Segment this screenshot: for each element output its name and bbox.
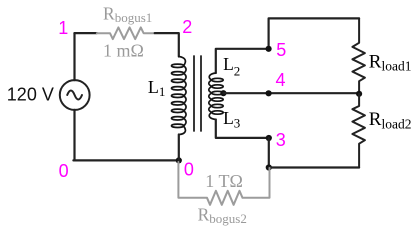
junction node 5	[266, 46, 272, 52]
wire R_bogus1 to node 2 corner	[155, 33, 179, 56]
svg-text:L1: L1	[148, 77, 166, 99]
svg-text:5: 5	[276, 40, 286, 60]
wire node 3 down to bottom right rail	[268, 138, 270, 168]
wire L3 bottom to node 3	[216, 120, 269, 138]
svg-text:1 TΩ: 1 TΩ	[205, 171, 243, 191]
resistor R_bogus2	[178, 162, 269, 205]
voltage source V1	[60, 80, 90, 110]
wire L1 bottom to node 0 junction	[178, 135, 180, 161]
svg-text:1: 1	[58, 18, 68, 38]
svg-text:Rbogus1: Rbogus1	[103, 4, 152, 26]
svg-text:3: 3	[276, 130, 286, 150]
resistor R_load1	[352, 18, 365, 93]
svg-text:4: 4	[276, 70, 286, 90]
svg-text:Rload2: Rload2	[369, 109, 412, 132]
inductor L3 secondary lower	[209, 93, 223, 120]
svg-text:0: 0	[184, 160, 194, 180]
svg-text:Rload1: Rload1	[369, 51, 412, 73]
junction node 4	[266, 90, 272, 96]
wire top-left from node 1 to R_bogus1	[75, 32, 97, 34]
transformer core	[194, 56, 201, 131]
svg-text:L2: L2	[223, 54, 240, 79]
junction node 0	[176, 157, 182, 163]
wire source bottom to bottom rail	[73, 110, 75, 160]
wire bottom right rail	[269, 166, 359, 168]
svg-text:L3: L3	[223, 108, 240, 131]
inductor L2 secondary upper	[209, 73, 223, 95]
junction node 3	[266, 135, 272, 141]
svg-text:120 V: 120 V	[7, 84, 54, 104]
center tap junction	[220, 90, 226, 96]
wire center tap to node 4 to R_load junction	[223, 92, 359, 94]
svg-text:Rbogus2: Rbogus2	[198, 204, 247, 226]
wire bottom rail node 0	[73, 159, 178, 161]
svg-text:0: 0	[59, 161, 69, 181]
wire left vertical node1 to source top	[73, 33, 75, 80]
resistor R_bogus1	[97, 27, 155, 39]
junction node 3 lower	[266, 164, 272, 170]
resistor R_load2	[352, 94, 365, 168]
inductor L1 primary winding	[172, 57, 187, 135]
junction between loads	[356, 91, 362, 97]
svg-text:2: 2	[182, 17, 192, 37]
svg-text:1 mΩ: 1 mΩ	[103, 40, 144, 60]
wire node 5 horizontal and up to top rail	[216, 18, 359, 73]
